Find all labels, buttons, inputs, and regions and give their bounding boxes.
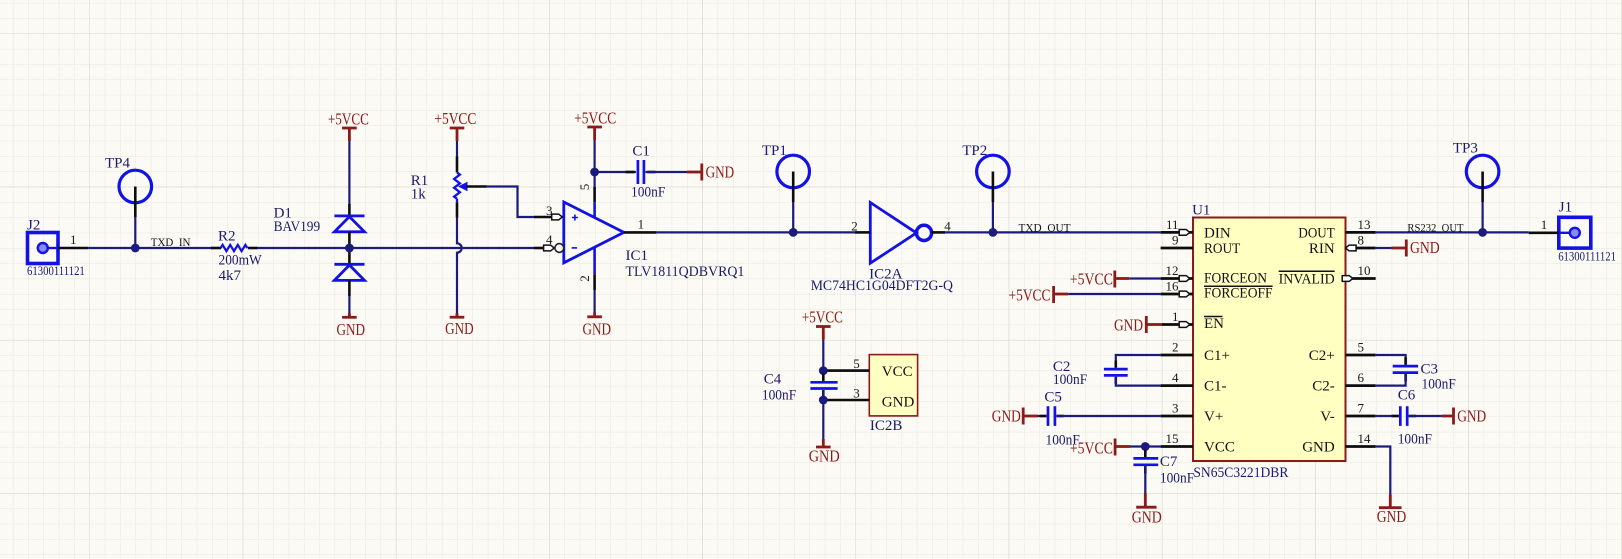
wire +5VCC to D1 xyxy=(348,141,350,204)
svg-text:C6: C6 xyxy=(1398,388,1416,404)
svg-text:GND: GND xyxy=(1457,407,1486,426)
ground below D1 xyxy=(337,313,366,339)
svg-text:4: 4 xyxy=(1172,370,1179,385)
power +5VCC to pin 15 xyxy=(1070,439,1131,458)
junction at TP4 xyxy=(131,244,140,253)
junction at D1 xyxy=(345,244,354,253)
svg-text:GND: GND xyxy=(337,320,366,339)
wire D1 to GND xyxy=(348,296,350,315)
svg-text:8: 8 xyxy=(1358,233,1365,248)
pin 6 C2- xyxy=(1346,384,1376,387)
wire IC2A to U1 DIN xyxy=(945,231,1160,233)
svg-text:C2-: C2- xyxy=(1312,378,1335,394)
svg-text:7: 7 xyxy=(1358,401,1365,416)
ground below IC1 xyxy=(583,313,612,339)
svg-text:IC1: IC1 xyxy=(626,248,649,264)
svg-text:5: 5 xyxy=(853,356,860,371)
power +5VCC to pin 12 xyxy=(1070,270,1129,289)
svg-text:C1-: C1- xyxy=(1204,378,1227,394)
ground below R1 xyxy=(445,313,474,338)
svg-text:SN65C3221DBR: SN65C3221DBR xyxy=(1193,465,1288,481)
ground below pin 14 xyxy=(1377,495,1407,526)
svg-text:+5VCC: +5VCC xyxy=(1009,285,1051,304)
pin 13 DOUT xyxy=(1346,231,1376,234)
svg-text:GND: GND xyxy=(1302,439,1335,455)
power +5VCC to pin 16 xyxy=(1009,285,1069,304)
svg-text:V+: V+ xyxy=(1204,409,1223,425)
svg-text:GND: GND xyxy=(1132,508,1162,527)
svg-text:3: 3 xyxy=(546,203,553,218)
capacitor C6 xyxy=(1376,388,1442,448)
svg-text:2: 2 xyxy=(577,275,592,282)
connector J2 xyxy=(27,218,88,279)
svg-text:9: 9 xyxy=(1172,233,1179,248)
pin 2 of IC1 xyxy=(593,248,596,274)
svg-text:1: 1 xyxy=(1541,217,1548,232)
svg-text:BAV199: BAV199 xyxy=(274,219,321,235)
pin 10 INVALID xyxy=(1346,277,1376,280)
svg-text:J1: J1 xyxy=(1559,200,1572,216)
svg-text:+5VCC: +5VCC xyxy=(1070,439,1113,458)
svg-text:C1+: C1+ xyxy=(1204,348,1230,364)
ground right of RIN xyxy=(1392,238,1440,257)
wire +5VCC to IC2B VCC xyxy=(822,340,824,371)
svg-text:6: 6 xyxy=(1358,370,1365,385)
pin 16 FORCEOFF xyxy=(1161,293,1193,296)
test point TP3 xyxy=(1453,141,1499,233)
svg-text:15: 15 xyxy=(1166,431,1179,446)
svg-text:RIN: RIN xyxy=(1309,241,1335,257)
svg-text:+5VCC: +5VCC xyxy=(328,110,369,129)
svg-text:GND: GND xyxy=(1410,238,1440,257)
power part IC2B xyxy=(823,355,917,434)
svg-text:14: 14 xyxy=(1358,431,1372,446)
svg-text:EN: EN xyxy=(1204,316,1224,332)
power +5VCC above D1 xyxy=(328,110,369,142)
pin 14 GND xyxy=(1346,445,1376,448)
svg-text:5: 5 xyxy=(1358,340,1365,355)
svg-text:DOUT: DOUT xyxy=(1298,225,1334,241)
junction at C4 bottom xyxy=(819,396,828,405)
svg-text:TP3: TP3 xyxy=(1453,141,1478,157)
wire +5VCC to pin 15 xyxy=(1131,445,1161,447)
svg-text:U1: U1 xyxy=(1192,203,1210,219)
svg-text:5: 5 xyxy=(577,184,592,191)
svg-text:16: 16 xyxy=(1166,279,1180,294)
svg-text:+5VCC: +5VCC xyxy=(574,109,616,128)
wire R2 to D1 xyxy=(258,247,350,249)
svg-text:MC74HC1G04DFT2G-Q: MC74HC1G04DFT2G-Q xyxy=(811,278,953,294)
svg-text:GND: GND xyxy=(445,319,474,338)
diode D1 (dual BAV199) xyxy=(274,204,365,296)
svg-text:2: 2 xyxy=(1172,340,1179,355)
ground to pin 1 EN xyxy=(1114,315,1162,334)
svg-text:C5: C5 xyxy=(1044,390,1062,406)
pin 1 of IC1 xyxy=(624,231,657,234)
svg-text:C2+: C2+ xyxy=(1309,348,1335,364)
svg-text:C7: C7 xyxy=(1160,454,1178,470)
ground below C7 xyxy=(1132,493,1162,527)
IC U1 SN65C3221DBR xyxy=(1161,203,1376,481)
ground right of C1 xyxy=(687,163,734,182)
pin 3 V+ xyxy=(1161,415,1193,418)
svg-text:+5VCC: +5VCC xyxy=(802,308,843,327)
svg-text:R2: R2 xyxy=(218,229,236,245)
svg-text:+5VCC: +5VCC xyxy=(434,109,476,128)
wire +5VCC to R1 xyxy=(456,141,458,157)
wire R1 bottom with hop over TXD wire xyxy=(457,218,462,316)
svg-text:200mW: 200mW xyxy=(219,252,263,268)
junction at TP2 xyxy=(989,228,998,237)
svg-text:100nF: 100nF xyxy=(1422,377,1456,393)
svg-text:DIN: DIN xyxy=(1204,225,1231,241)
svg-text:4: 4 xyxy=(944,219,951,234)
svg-text:GND: GND xyxy=(706,163,735,182)
junction at TP3 xyxy=(1478,228,1487,237)
junction at C1 tap xyxy=(590,168,599,177)
wire D1 to R1 crossing xyxy=(349,247,534,249)
power +5VCC above R1 xyxy=(434,109,476,141)
wire IC1 out to IC2A xyxy=(656,231,854,233)
svg-text:10: 10 xyxy=(1358,263,1371,278)
pin 1 of J2 xyxy=(58,247,88,250)
svg-text:TP4: TP4 xyxy=(105,156,131,172)
pin 5 of IC2B xyxy=(823,370,869,372)
svg-text:TP2: TP2 xyxy=(962,143,987,159)
capacitor C7 xyxy=(1133,447,1194,494)
potentiometer R1 xyxy=(411,157,487,218)
svg-text:61300111121: 61300111121 xyxy=(27,264,85,278)
svg-text:100nF: 100nF xyxy=(762,388,796,404)
capacitor C2 xyxy=(1053,355,1161,388)
svg-text:TLV1811QDBVRQ1: TLV1811QDBVRQ1 xyxy=(626,264,745,280)
pin 9 ROUT xyxy=(1161,247,1193,250)
svg-text:IC2B: IC2B xyxy=(870,418,903,434)
svg-text:1k: 1k xyxy=(411,187,427,203)
svg-text:VCC: VCC xyxy=(882,364,913,380)
svg-text:VCC: VCC xyxy=(1204,439,1235,455)
svg-text:+5VCC: +5VCC xyxy=(1070,270,1113,289)
svg-text:4: 4 xyxy=(546,232,553,247)
pin 1 of J1 xyxy=(1529,232,1559,235)
pin 8 RIN xyxy=(1346,247,1376,250)
pin 4 of IC2A xyxy=(932,231,946,234)
capacitor C4 xyxy=(762,371,838,404)
svg-text:3: 3 xyxy=(853,386,860,401)
capacitor C1 xyxy=(595,144,687,201)
svg-text:TXD_OUT: TXD_OUT xyxy=(1019,221,1072,235)
power +5VCC above IC1 xyxy=(574,109,616,141)
svg-text:1: 1 xyxy=(638,217,645,232)
svg-text:2: 2 xyxy=(851,219,858,234)
svg-text:C1: C1 xyxy=(632,144,650,160)
svg-text:V-: V- xyxy=(1320,409,1334,425)
svg-text:61300111121: 61300111121 xyxy=(1558,250,1616,264)
svg-text:ROUT: ROUT xyxy=(1204,241,1240,257)
pin 12 FORCEON xyxy=(1161,277,1193,280)
pin 2 C1+ xyxy=(1161,354,1193,357)
wire R1 wiper to IC1 pin 3 xyxy=(487,187,535,218)
resistor R2 xyxy=(211,229,262,285)
wire C4 to GND xyxy=(822,400,824,441)
power +5VCC above C4 xyxy=(802,308,843,340)
svg-text:J2: J2 xyxy=(27,218,40,234)
svg-text:GND: GND xyxy=(583,320,612,339)
svg-text:TXD_IN: TXD_IN xyxy=(151,235,191,249)
svg-text:GND: GND xyxy=(1377,507,1407,526)
capacitor C3 xyxy=(1376,355,1456,393)
wire +5VCC to IC1 pin5 and C1 xyxy=(593,140,595,187)
svg-text:INVALID: INVALID xyxy=(1279,271,1335,287)
pin 4 C1- xyxy=(1161,384,1193,387)
svg-text:GND: GND xyxy=(882,395,915,411)
svg-text:GND: GND xyxy=(1114,315,1143,334)
svg-text:TP1: TP1 xyxy=(762,143,787,159)
svg-text:100nF: 100nF xyxy=(631,185,665,201)
test point TP4 xyxy=(105,156,152,249)
ground right of C6 xyxy=(1442,407,1486,426)
svg-text:C3: C3 xyxy=(1421,362,1439,378)
op-amp IC1 xyxy=(534,184,744,290)
wire RIN to GND xyxy=(1376,247,1392,249)
svg-text:4k7: 4k7 xyxy=(219,268,242,284)
inverter IC2A xyxy=(811,203,953,295)
svg-text:1: 1 xyxy=(1172,309,1179,324)
svg-text:1: 1 xyxy=(70,232,77,247)
pin 2 of IC2A xyxy=(855,231,871,234)
capacitor C5 xyxy=(1038,390,1161,449)
ground left of C5 xyxy=(992,407,1038,426)
test point TP2 xyxy=(962,143,1009,232)
wire +5VCC to pin 16 xyxy=(1068,293,1160,295)
pin 4 of IC1 with bubble xyxy=(534,247,550,250)
svg-text:FORCEOFF: FORCEOFF xyxy=(1204,285,1273,301)
pin 3 of IC2B xyxy=(827,399,869,402)
test point TP1 xyxy=(762,143,810,232)
svg-text:100nF: 100nF xyxy=(1053,372,1087,388)
pin 3 of IC1 xyxy=(534,216,558,219)
svg-text:GND: GND xyxy=(992,407,1021,426)
pin 15 VCC xyxy=(1161,445,1193,448)
svg-text:3: 3 xyxy=(1172,401,1179,416)
svg-text:100nF: 100nF xyxy=(1160,471,1194,487)
junction at TP1 xyxy=(789,228,798,237)
svg-text:12: 12 xyxy=(1166,263,1179,278)
wire DOUT to J1 xyxy=(1376,231,1529,233)
svg-text:FORCEON: FORCEON xyxy=(1204,271,1267,287)
pin 5 of IC1 xyxy=(593,187,596,202)
ground below C4 xyxy=(809,439,840,466)
connector J1 xyxy=(1529,200,1616,264)
svg-text:GND: GND xyxy=(809,447,840,466)
svg-text:C4: C4 xyxy=(764,372,782,388)
svg-text:13: 13 xyxy=(1358,217,1371,232)
junction at C7 tap xyxy=(1141,442,1150,451)
pin 7 V- xyxy=(1346,415,1376,418)
pin 5 C2+ xyxy=(1346,354,1376,357)
wire IC1 pin2 to GND xyxy=(593,290,595,315)
wire J2 to R2 xyxy=(88,247,212,249)
svg-text:11: 11 xyxy=(1166,217,1179,232)
wire +5VCC to pin 12 xyxy=(1129,277,1160,279)
pin 11 DIN xyxy=(1161,231,1193,234)
wire pin 14 to GND xyxy=(1376,447,1391,496)
junction at C4 top xyxy=(819,366,828,375)
svg-text:RS232_OUT: RS232_OUT xyxy=(1407,221,1464,235)
svg-text:100nF: 100nF xyxy=(1398,432,1432,448)
pin 1 EN xyxy=(1162,323,1193,326)
